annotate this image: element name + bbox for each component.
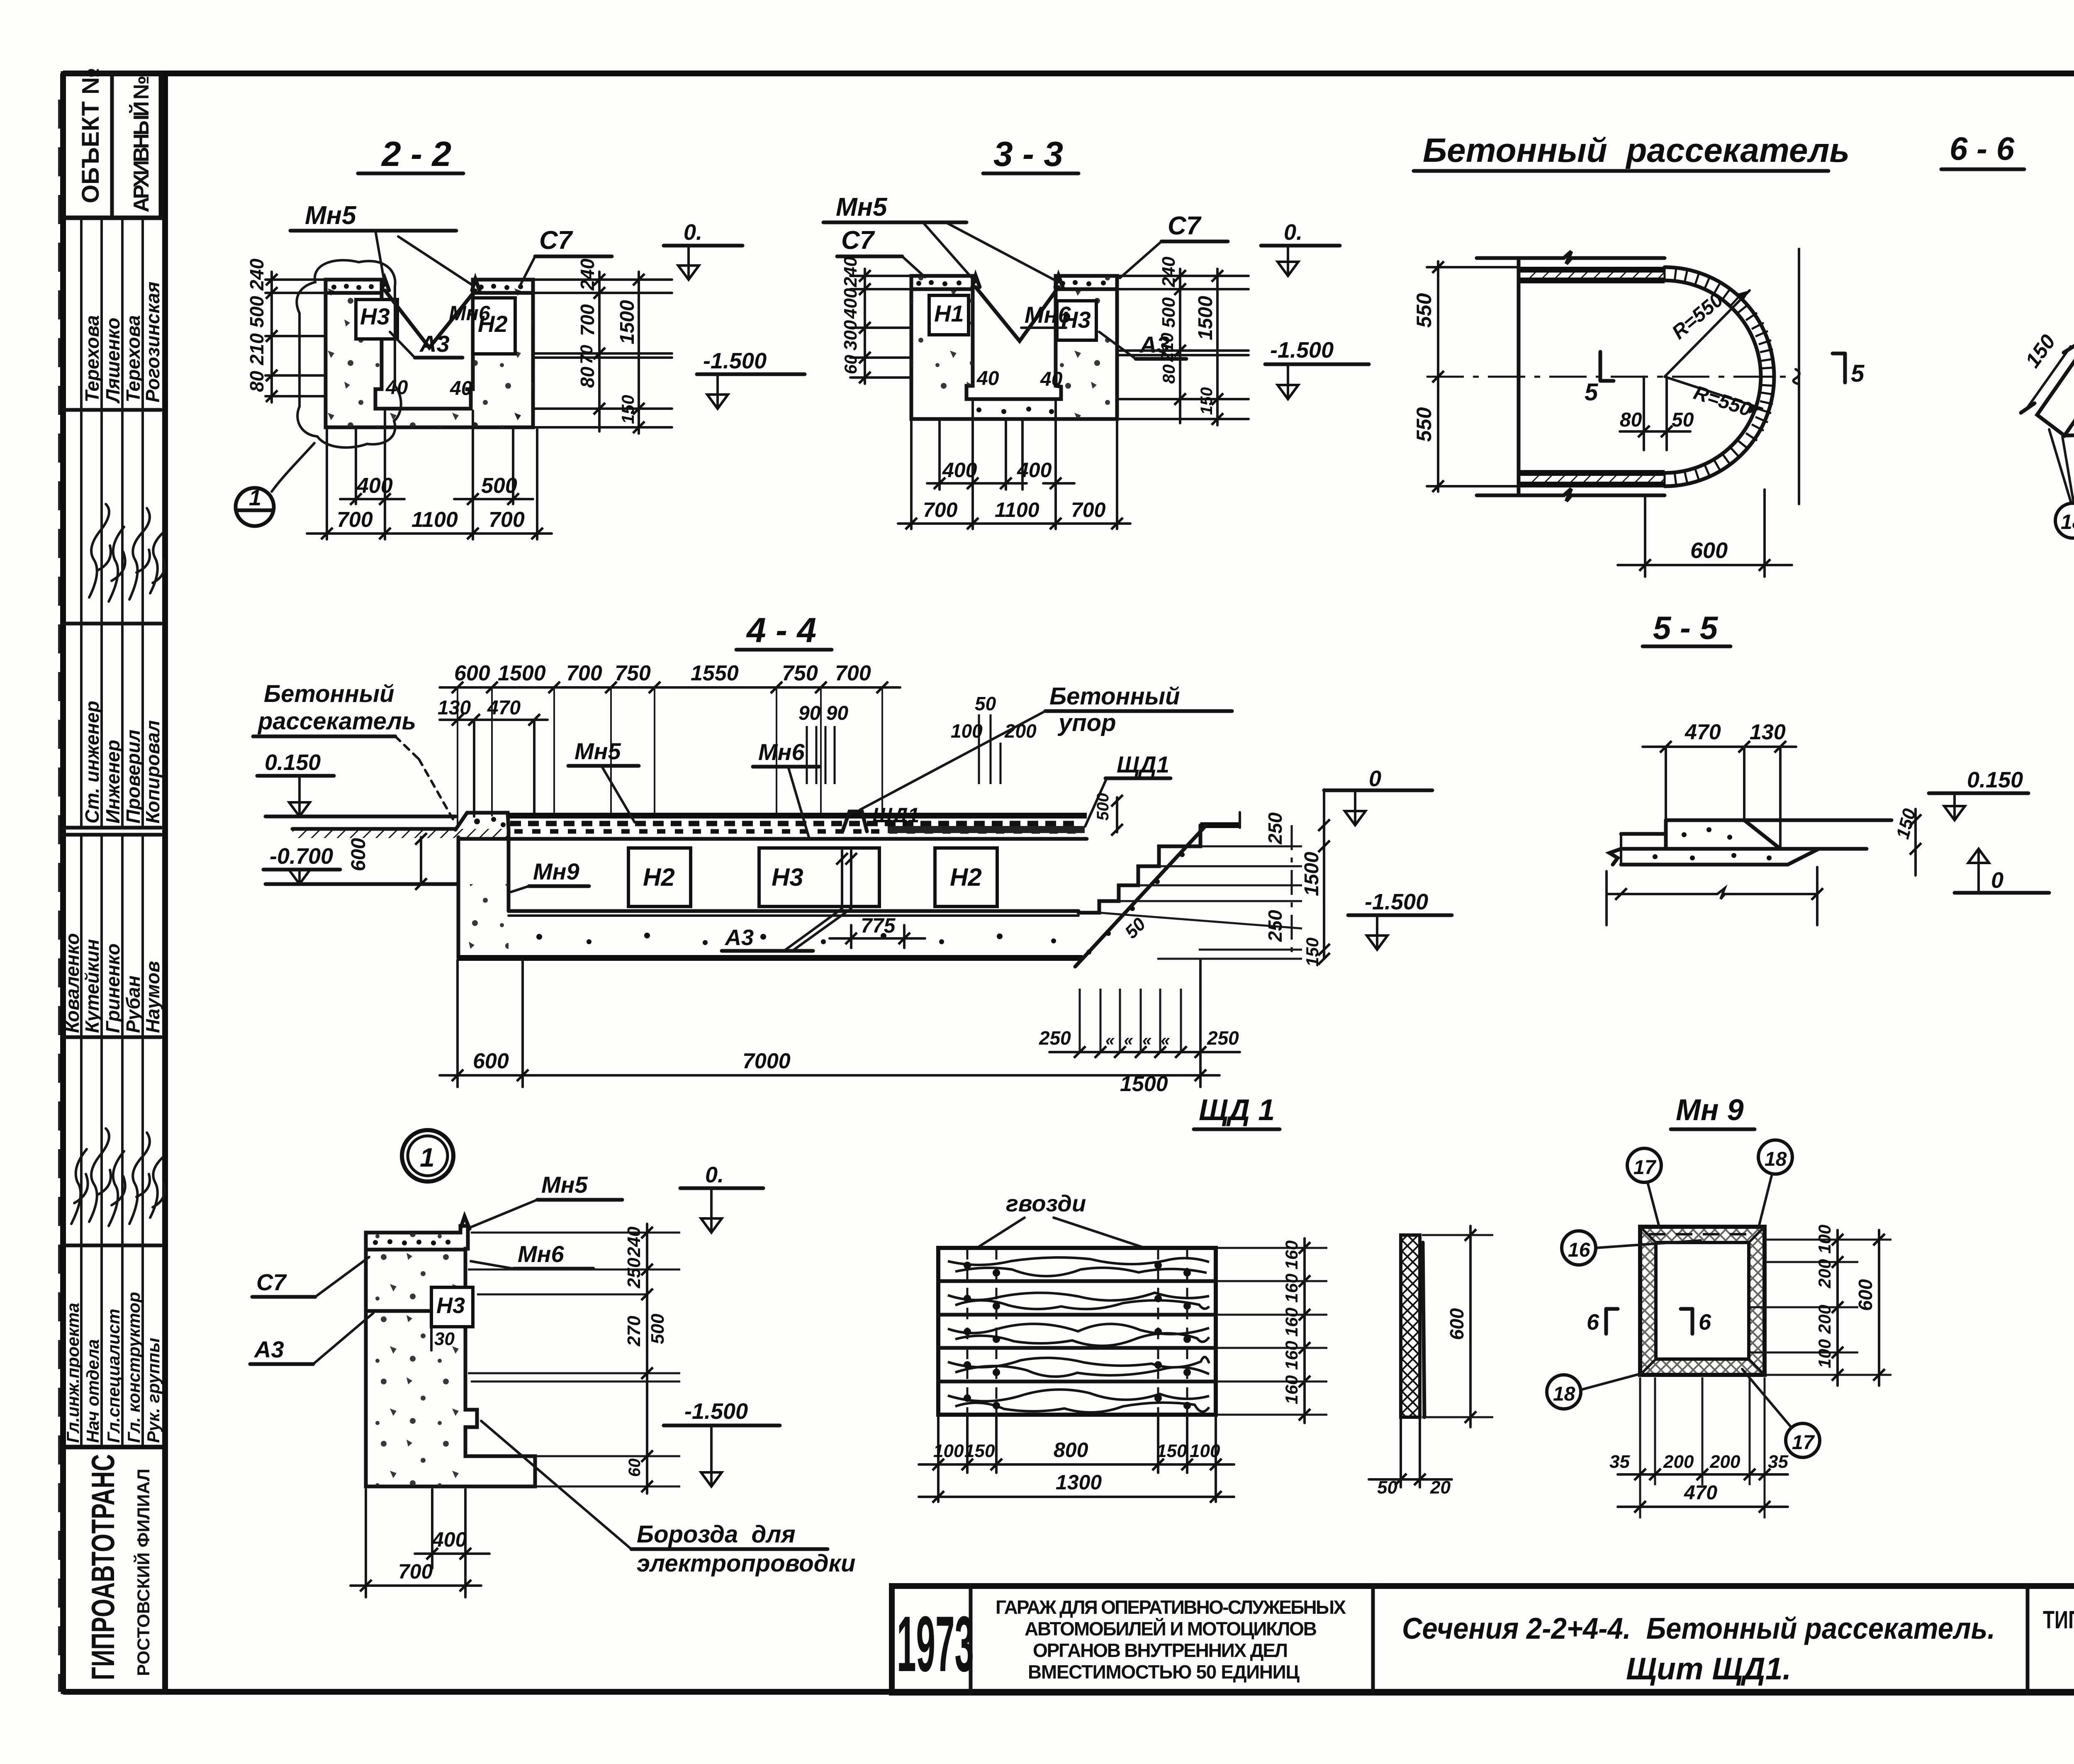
title block outline: [892, 1586, 2074, 1693]
stamp left border: [60, 73, 66, 1692]
svg-text:200: 200: [1815, 1305, 1834, 1334]
bottom ext lines: [1640, 1377, 1765, 1518]
svg-text:1500: 1500: [1195, 296, 1217, 340]
top mortar band line right: [473, 291, 533, 295]
left edge: [1517, 258, 1521, 495]
svg-text:ОРГАНОВ ВНУТРЕННИХ ДЕЛ: ОРГАНОВ ВНУТРЕННИХ ДЕЛ: [1033, 1640, 1288, 1661]
svg-text:Н1: Н1: [934, 300, 964, 326]
corner diagonals: [1640, 1227, 1656, 1243]
dim row 1: [340, 498, 404, 500]
section F job titles 2: [63, 1245, 163, 1447]
svg-text:Гриненко: Гриненко: [102, 943, 124, 1033]
svg-text:130: 130: [438, 697, 471, 719]
svg-text:160: 160: [1282, 1375, 1301, 1404]
80 50 offset lines: [1643, 377, 1645, 450]
dashed top edge: [1649, 1233, 1757, 1235]
svg-text:С7: С7: [539, 226, 573, 255]
concrete U-section body: [911, 276, 1117, 419]
svg-text:0: 0: [1369, 766, 1381, 791]
Mn6 V-anchor: [976, 287, 1059, 341]
top heavy band: [1519, 267, 1665, 273]
H1 niche box: [929, 295, 969, 335]
svg-text:ЩД1: ЩД1: [1117, 751, 1169, 777]
bottom dim extensions: [456, 960, 459, 1087]
svg-text:40: 40: [976, 368, 999, 390]
svg-text:700: 700: [923, 498, 958, 521]
stamp outer left dashed edge: [58, 100, 61, 1692]
svg-text:Мн6: Мн6: [449, 302, 491, 325]
bottom dims: [365, 1489, 367, 1597]
svg-text:700: 700: [1071, 498, 1106, 521]
section mark 6 right: [1691, 1309, 1694, 1334]
frame hatch: [1640, 1227, 1765, 1375]
dim row 2 (700 1100 700): [898, 522, 1130, 525]
svg-text:250: 250: [1264, 910, 1286, 942]
svg-text:Мн 9: Мн 9: [1676, 1094, 1744, 1127]
svg-text:Н2: Н2: [950, 863, 982, 891]
svg-text:400: 400: [1017, 458, 1052, 482]
svg-text:160: 160: [1282, 1308, 1301, 1337]
svg-text:ГАРАЖ ДЛЯ ОПЕРАТИВНО-СЛУЖЕБНЫХ: ГАРАЖ ДЛЯ ОПЕРАТИВНО-СЛУЖЕБНЫХ: [996, 1596, 1346, 1618]
svg-text:60: 60: [841, 355, 860, 374]
svg-text:150: 150: [964, 1441, 995, 1461]
panel outline: [938, 1248, 1216, 1415]
section mark 6 left: [1604, 1309, 1608, 1334]
left dim chain: [864, 269, 866, 384]
svg-text:470: 470: [1685, 720, 1721, 744]
top dims 470 130: [1643, 746, 1796, 748]
right dim chain dashed: [1291, 825, 1293, 959]
svg-text:АРХИВНЫЙ №: АРХИВНЫЙ №: [129, 76, 153, 212]
svg-text:470: 470: [1684, 1482, 1717, 1504]
detail circle 1 mark: [402, 1130, 453, 1182]
svg-text:700: 700: [337, 508, 373, 532]
svg-text:Мн6: Мн6: [758, 739, 805, 765]
circle 17 top: [1627, 1148, 1661, 1182]
top dim extension verticals: [458, 687, 882, 826]
svg-text:Мн5: Мн5: [541, 1172, 588, 1198]
center axis dash-dot: [1426, 376, 1792, 378]
circle 17 bottom-right: [1786, 1423, 1820, 1457]
top dim chain line: [440, 686, 900, 689]
nail dashed verticals: [966, 1248, 969, 1415]
bottom heavy band: [1519, 470, 1665, 476]
ground line left: [265, 815, 455, 819]
svg-text:Гл.инж.проекта: Гл.инж.проекта: [63, 1303, 83, 1443]
svg-text:500: 500: [481, 474, 517, 498]
section E signatures 2: [63, 1037, 165, 1245]
frame inner square: [1656, 1243, 1749, 1359]
svg-text:Гл.специалист: Гл.специалист: [104, 1309, 123, 1443]
svg-text:« « « «: « « « «: [1105, 1031, 1170, 1049]
svg-text:160: 160: [1282, 1274, 1301, 1303]
svg-text:18: 18: [1553, 1383, 1575, 1405]
svg-text:50: 50: [1672, 409, 1694, 431]
svg-text:Ляшенко: Ляшенко: [102, 318, 124, 404]
svg-text:150: 150: [1198, 387, 1216, 415]
svg-text:130: 130: [1750, 720, 1786, 744]
bottom dim row 2: [919, 1496, 1234, 1498]
svg-text:Кутейкин: Кутейкин: [81, 939, 103, 1033]
deck top heavy line: [509, 813, 1087, 819]
svg-text:Копировал: Копировал: [142, 720, 163, 824]
svg-text:150: 150: [618, 395, 638, 424]
svg-text:Мн5: Мн5: [305, 201, 357, 230]
top band dots right: [479, 284, 523, 290]
svg-text:-1.500: -1.500: [1365, 889, 1428, 914]
svg-text:18: 18: [2061, 510, 2074, 534]
svg-text:А3: А3: [419, 331, 450, 357]
H3 niche: [431, 1287, 473, 1327]
signature squiggles: [89, 504, 111, 597]
160 dim chain (panel right): [1303, 1238, 1306, 1423]
strip bottom dims 50 20: [1369, 1478, 1452, 1481]
svg-text:7000: 7000: [742, 1049, 791, 1073]
svg-text:470: 470: [487, 697, 521, 719]
floor speckles: [326, 409, 533, 427]
svg-text:100: 100: [933, 1441, 964, 1461]
wall speckles right: [1056, 276, 1117, 419]
leaders to 18: [2049, 429, 2074, 503]
R=550 radial 2: [1665, 377, 1762, 409]
svg-text:0.150: 0.150: [1967, 767, 2023, 792]
circle 18 bottom-left: [1547, 1375, 1581, 1409]
plank lines: [938, 1279, 1216, 1283]
svg-text:Гл. конструктор: Гл. конструктор: [124, 1292, 144, 1443]
bottom extension lines: [326, 429, 328, 539]
bottom dim line 600 7000: [440, 1074, 1220, 1077]
top outer line with break: [1477, 251, 1665, 264]
svg-text:0.: 0.: [1284, 220, 1302, 245]
svg-text:80: 80: [1159, 364, 1178, 384]
svg-text:80: 80: [577, 366, 598, 388]
svg-text:500: 500: [1159, 297, 1179, 328]
svg-text:1300: 1300: [1056, 1471, 1102, 1494]
svg-text:80: 80: [1620, 409, 1642, 431]
ground line right of stairs: [1200, 822, 1240, 828]
svg-text:160: 160: [1282, 1240, 1301, 1269]
svg-text:700: 700: [577, 304, 598, 336]
svg-text:600: 600: [454, 661, 490, 685]
svg-text:20: 20: [1430, 1477, 1451, 1498]
svg-text:0.150: 0.150: [265, 750, 321, 775]
svg-text:550: 550: [1412, 293, 1436, 328]
semicircle outer: [1665, 267, 1774, 486]
svg-text:электропроводки: электропроводки: [637, 1550, 855, 1577]
section B signatures 1: [63, 410, 165, 624]
svg-text:40: 40: [1040, 368, 1063, 390]
svg-text:ВМЕСТИМОСТЬЮ 50 ЕДИНИЦ: ВМЕСТИМОСТЬЮ 50 ЕДИНИЦ: [1028, 1661, 1300, 1683]
svg-text:100: 100: [1815, 1339, 1834, 1368]
section C job titles 1: [63, 624, 163, 835]
svg-text:РОСТОВСКИЙ ФИЛИАЛ: РОСТОВСКИЙ ФИЛИАЛ: [133, 1469, 153, 1676]
svg-text:800: 800: [1054, 1438, 1088, 1462]
svg-text:4 - 4: 4 - 4: [746, 611, 816, 650]
svg-text:250: 250: [1264, 812, 1286, 845]
stamp right border (frame inner): [162, 73, 168, 1692]
left extension lines: [850, 275, 913, 277]
svg-text:250: 250: [624, 1257, 644, 1289]
svg-text:200: 200: [1815, 1259, 1834, 1289]
svg-text:6: 6: [1587, 1310, 1599, 1335]
floor band speckles: [976, 407, 1054, 414]
svg-text:1500: 1500: [498, 661, 546, 685]
svg-text:150: 150: [1302, 938, 1322, 967]
svg-text:6 - 6: 6 - 6: [1950, 130, 2015, 167]
svg-text:А3: А3: [253, 1336, 284, 1362]
svg-text:Мн6: Мн6: [518, 1241, 564, 1267]
svg-text:АВТОМОБИЛЕЙ И МОТОЦИКЛОВ: АВТОМОБИЛЕЙ И МОТОЦИКЛОВ: [1025, 1618, 1317, 1640]
svg-text:ГИПРОАВТОТРАНС: ГИПРОАВТОТРАНС: [85, 1454, 121, 1680]
right extension lines: [1117, 275, 1249, 277]
svg-text:Н3: Н3: [360, 303, 390, 329]
right dim chain 1: [1179, 269, 1181, 423]
svg-text:270: 270: [624, 1316, 644, 1347]
section mark 5 left: [1599, 352, 1602, 381]
svg-text:5: 5: [1851, 360, 1865, 387]
svg-text:17: 17: [1792, 1432, 1815, 1454]
svg-text:240: 240: [624, 1226, 644, 1257]
svg-text:200: 200: [1663, 1452, 1694, 1472]
svg-text:600: 600: [473, 1049, 509, 1073]
right dim chain 100 200 200 100: [1836, 1230, 1839, 1386]
detail mark circle 1: [236, 488, 274, 526]
svg-text:18: 18: [1765, 1148, 1787, 1170]
svg-text:35: 35: [1768, 1452, 1788, 1472]
sheet top border: [63, 71, 2074, 76]
circle 16 left: [1562, 1231, 1596, 1265]
A3 bar in wall: [367, 1309, 429, 1313]
svg-text:50: 50: [1377, 1477, 1397, 1498]
right dim chain: [646, 1224, 648, 1494]
svg-text:Бетонный рассекатель: Бетонный рассекатель: [1423, 132, 1850, 169]
deck bottom line: [458, 837, 1087, 841]
775 dim: [850, 925, 852, 948]
svg-text:400: 400: [432, 1528, 467, 1551]
svg-text:240: 240: [1159, 256, 1179, 288]
svg-text:16: 16: [1568, 1239, 1590, 1261]
svg-text:600: 600: [1690, 538, 1728, 563]
svg-text:250: 250: [1207, 1027, 1239, 1049]
svg-text:Мн9: Мн9: [533, 858, 579, 884]
left broken end: [1609, 849, 1621, 865]
bottom extension lines: [910, 421, 913, 529]
org name box: [63, 1447, 165, 1692]
svg-text:упор: упор: [1057, 709, 1116, 736]
wood shield bar on deck: [888, 826, 1085, 833]
top band dots left: [331, 284, 374, 290]
left dim vertical line: [270, 272, 273, 402]
right ext lines: [1750, 1240, 1891, 1375]
top mortar band line right: [1056, 288, 1117, 291]
svg-text:0.: 0.: [684, 220, 702, 245]
berm body: [1666, 820, 1819, 849]
right dim chain 2 (1500/150): [638, 272, 640, 434]
H3 niche box: [356, 300, 397, 339]
Mn5 anchor top: [460, 1216, 470, 1229]
dim row 1 (400 400): [927, 482, 1027, 485]
svg-text:40: 40: [450, 378, 472, 400]
svg-text:100: 100: [1190, 1441, 1220, 1461]
stairs steps: [1078, 825, 1200, 913]
sheet bottom border: [63, 1689, 2074, 1695]
svg-text:0: 0: [1991, 868, 2003, 893]
bottom dim 35 200 200 35: [1618, 1473, 1788, 1476]
svg-text:Мн6: Мн6: [1025, 302, 1071, 328]
right extension lines: [533, 278, 672, 281]
svg-text:400: 400: [356, 474, 393, 498]
svg-text:ЩД 1: ЩД 1: [1199, 1094, 1275, 1127]
divider after 1973: [969, 1586, 973, 1693]
svg-text:210: 210: [246, 333, 268, 365]
bottom dim line with break: [1607, 888, 1817, 899]
svg-text:Н2: Н2: [643, 863, 675, 891]
Mn6 V-anchor in cavity: [385, 290, 475, 348]
H2 box 2: [935, 848, 997, 906]
left dim 550/550: [1437, 261, 1439, 492]
svg-text:30: 30: [434, 1329, 455, 1349]
H2 box 1: [628, 848, 691, 906]
svg-text:Наумов: Наумов: [142, 961, 163, 1033]
dim row 2: [307, 532, 552, 535]
svg-text:С7: С7: [1168, 212, 1202, 240]
top mortar band line left: [326, 291, 382, 295]
deck asphalt dotted band: [510, 821, 1078, 826]
svg-text:0.: 0.: [705, 1162, 724, 1187]
section D names 2: [61, 835, 163, 1037]
section mark 5 right: [1843, 353, 1847, 383]
svg-text:200: 200: [1709, 1452, 1741, 1472]
svg-text:Борозда для: Борозда для: [637, 1521, 796, 1548]
right boundary tall line: [1798, 249, 1800, 504]
leader to detail circle: [272, 443, 314, 492]
sub dim 130 470: [440, 719, 548, 721]
svg-text:5 - 5: 5 - 5: [1653, 609, 1719, 646]
wall body outline: [366, 1226, 535, 1486]
rassekatel wedge: [455, 813, 509, 830]
left wall speckles: [458, 884, 509, 958]
wood grain: [948, 1257, 1209, 1412]
H3 box: [759, 848, 879, 906]
svg-text:Н3: Н3: [436, 1293, 465, 1318]
svg-text:Терехова: Терехова: [122, 315, 144, 402]
svg-text:240: 240: [577, 258, 598, 291]
svg-text:Мн5: Мн5: [836, 193, 888, 222]
svg-text:500: 500: [648, 1313, 668, 1344]
stair stringer: [1075, 825, 1206, 967]
bottom dim 600: [1644, 498, 1646, 577]
wall speckles: [366, 1233, 465, 1486]
svg-text:1500: 1500: [1120, 1072, 1168, 1096]
svg-text:ОБЪЕКТ №: ОБЪЕКТ №: [77, 68, 104, 203]
slab speckle dots: [536, 933, 1056, 945]
svg-text:гвозди: гвозди: [1006, 1190, 1086, 1216]
svg-text:5: 5: [1585, 379, 1598, 406]
svg-text:1973: 1973: [897, 1600, 974, 1688]
wall speckles left: [911, 276, 973, 399]
base line: [1621, 847, 1867, 851]
svg-text:Терехова: Терехова: [81, 315, 103, 402]
divider after project name: [1371, 1586, 1375, 1693]
svg-text:Бетонный: Бетонный: [1049, 683, 1180, 710]
svg-text:500: 500: [1094, 793, 1112, 821]
svg-text:-1.500: -1.500: [684, 1399, 748, 1424]
svg-text:ЩД1: ЩД1: [872, 804, 919, 827]
svg-text:700: 700: [566, 661, 602, 685]
svg-text:600: 600: [348, 838, 370, 871]
svg-text:600: 600: [1446, 1308, 1468, 1340]
svg-text:Бетонный: Бетонный: [264, 680, 394, 707]
150 dim: [2028, 346, 2071, 407]
A3 nails in H3: [841, 850, 843, 911]
svg-text:160: 160: [1282, 1341, 1301, 1370]
svg-text:1100: 1100: [411, 508, 458, 532]
svg-text:1100: 1100: [995, 498, 1039, 521]
svg-text:90 90: 90 90: [798, 702, 848, 724]
concrete U-section body: [326, 280, 533, 427]
nail dots: [964, 1262, 1191, 1409]
svg-text:400: 400: [840, 288, 861, 319]
divider before tipovoy: [2026, 1586, 2030, 1693]
svg-text:Рубан: Рубан: [122, 975, 144, 1033]
svg-text:1: 1: [420, 1143, 435, 1172]
svg-text:35: 35: [1609, 1452, 1630, 1472]
svg-text:1500: 1500: [1301, 852, 1323, 896]
svg-text:Рук. группы: Рук. группы: [144, 1338, 163, 1443]
R=550 radial 1: [1665, 290, 1750, 377]
svg-text:400: 400: [942, 458, 977, 482]
bottom slab: [1621, 849, 1819, 865]
svg-text:50: 50: [975, 693, 996, 714]
svg-text:-1.500: -1.500: [1270, 338, 1334, 363]
svg-text:100: 100: [1815, 1225, 1834, 1254]
semicircle inner: [1665, 280, 1761, 473]
svg-text:60: 60: [626, 1459, 644, 1477]
right dim 600: [1878, 1230, 1880, 1386]
side strip view: [1401, 1235, 1420, 1417]
svg-text:-0.700: -0.700: [270, 844, 333, 869]
right dim chain 1: [598, 272, 601, 431]
svg-text:700: 700: [489, 508, 525, 532]
svg-text:750: 750: [615, 661, 651, 685]
stair tread dim line 250..250: [1049, 1051, 1240, 1053]
radial hatch on arc: [1665, 267, 1775, 486]
svg-text:рассекатель: рассекатель: [257, 708, 416, 735]
svg-text:1500: 1500: [616, 300, 638, 344]
svg-text:80: 80: [246, 370, 268, 392]
svg-text:ТИПОВОЙ ПРОЕКТ: ТИПОВОЙ ПРОЕКТ: [2043, 1606, 2074, 1634]
svg-text:240: 240: [246, 258, 268, 291]
right ext lines from steps: [1099, 846, 1302, 959]
svg-text:600: 600: [1855, 1279, 1876, 1311]
svg-text:2 - 2: 2 - 2: [381, 134, 451, 173]
stair slab speckles: [1086, 852, 1185, 955]
bottom dim 470: [1618, 1506, 1788, 1508]
frame outer square: [1640, 1227, 1765, 1375]
strip right dim 600: [1469, 1226, 1472, 1427]
svg-text:6: 6: [1699, 1310, 1711, 1335]
cloud around left wall: [297, 260, 401, 448]
600 vertical dim left: [420, 837, 422, 884]
svg-text:300: 300: [840, 320, 861, 351]
svg-text:Мн5: Мн5: [574, 738, 621, 764]
germetik hatch band left: [292, 829, 509, 838]
svg-text:700: 700: [398, 1560, 433, 1583]
H3 niche box: [1057, 301, 1096, 340]
svg-text:Рогозинская: Рогозинская: [142, 282, 163, 402]
angle plate 3d: [2037, 355, 2074, 436]
svg-text:250: 250: [1039, 1027, 1071, 1049]
